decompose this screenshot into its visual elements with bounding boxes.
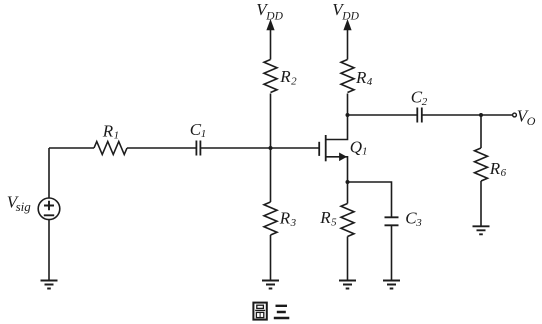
svg-text:3: 3 [415, 217, 422, 229]
wire C2 to output terminal [422, 114, 513, 116]
wire R6 to ground [480, 181, 482, 226]
svg-text:2: 2 [422, 96, 428, 108]
svg-text:DD: DD [341, 11, 359, 23]
svg-text:sig: sig [16, 199, 32, 214]
svg-text:R: R [319, 208, 331, 227]
svg-text:1: 1 [201, 128, 207, 140]
resistor R3 [264, 202, 277, 235]
wire source node to C3 [348, 182, 392, 217]
svg-text:4: 4 [367, 76, 373, 88]
label C3 [405, 209, 422, 229]
svg-text:DD: DD [265, 11, 283, 23]
wire Vsig bottom lead [48, 220, 50, 281]
svg-text:1: 1 [362, 146, 368, 158]
label R2 [279, 67, 297, 87]
power VDD arrow 2 [347, 28, 349, 60]
wire Vsig top lead [48, 148, 50, 198]
label VO [517, 106, 536, 128]
svg-text:R: R [489, 159, 501, 178]
svg-text:R: R [355, 68, 367, 87]
svg-text:O: O [527, 114, 536, 128]
svg-text:3: 3 [290, 217, 297, 229]
label C2 [411, 88, 428, 108]
wire R5 to ground [347, 237, 349, 281]
label R5 [319, 208, 337, 228]
label VDD 1 [256, 0, 283, 22]
source Vsig [38, 198, 60, 220]
node source junction [346, 180, 350, 184]
resistor R4 [341, 60, 354, 93]
capacitor C3 [385, 217, 399, 225]
ground (R6) [473, 226, 490, 234]
label Vsig [7, 192, 31, 214]
resistor R6 [475, 148, 488, 181]
resistor R2 [264, 60, 277, 93]
power VDD arrow 1 [270, 28, 272, 60]
capacitor C1 [196, 141, 200, 156]
resistor R5 [341, 204, 354, 237]
wire gate line left segment [49, 147, 94, 149]
terminal VO [513, 113, 517, 117]
wire R1 to C1 [127, 147, 197, 149]
label R3 [279, 209, 297, 229]
wire R4 to drain node [347, 94, 349, 116]
wire source node to R5 [347, 182, 349, 204]
node drain junction [346, 113, 350, 117]
svg-text:R: R [279, 67, 291, 86]
wire R2 to gate node [270, 94, 272, 149]
svg-text:6: 6 [501, 167, 507, 179]
capacitor C2 [417, 108, 422, 123]
wire drain node to C2 [348, 114, 418, 116]
svg-text:2: 2 [291, 75, 297, 87]
label R6 [489, 159, 507, 179]
ground (R5) [339, 281, 356, 289]
wire drain node down to transistor [326, 115, 348, 140]
wire output node to R6 [480, 115, 482, 148]
label figure title 圖三 [253, 303, 289, 320]
ground (R3) [262, 281, 279, 289]
wire C1 to gate [200, 147, 319, 149]
svg-text:1: 1 [114, 130, 120, 142]
ground (C3) [383, 281, 400, 289]
label Q1 [350, 137, 368, 157]
resistor R1 [94, 142, 127, 155]
label C1 [190, 120, 207, 140]
svg-text:5: 5 [331, 216, 337, 228]
ground (Vsig) [41, 281, 58, 289]
wire R3 to ground [270, 235, 272, 281]
wire gate node to R3 [270, 148, 272, 202]
svg-text:R: R [102, 121, 114, 140]
svg-text:R: R [279, 209, 291, 228]
wire C3 to ground [391, 225, 393, 280]
svg-text:Q: Q [350, 137, 362, 156]
node output junction [479, 113, 483, 117]
label R4 [355, 68, 373, 88]
label R1 [102, 121, 119, 141]
node gate junction [269, 146, 273, 150]
transistor Q1 [319, 135, 347, 182]
label VDD 2 [332, 0, 359, 22]
